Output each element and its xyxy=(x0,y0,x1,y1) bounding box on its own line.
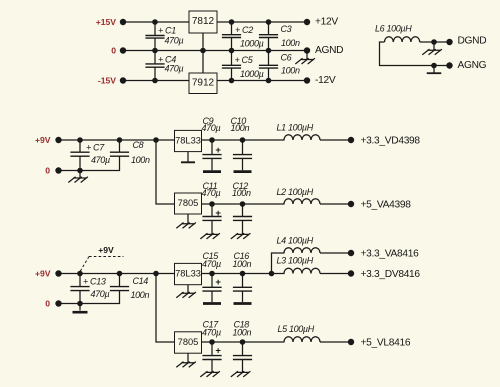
svg-text:C3: C3 xyxy=(281,24,292,34)
svg-text:+ C7: + C7 xyxy=(86,142,105,152)
svg-text:+9V: +9V xyxy=(35,135,51,145)
svg-text:+: + xyxy=(215,145,221,156)
svg-text:+: + xyxy=(215,277,221,288)
svg-text:+9V: +9V xyxy=(98,245,114,255)
svg-text:0: 0 xyxy=(111,46,116,56)
svg-text:+3.3_DV8416: +3.3_DV8416 xyxy=(361,269,421,280)
svg-text:+: + xyxy=(215,346,221,357)
svg-text:L5 100µH: L5 100µH xyxy=(278,324,315,334)
svg-text:7912: 7912 xyxy=(192,77,215,88)
svg-text:1000µ: 1000µ xyxy=(240,69,264,79)
svg-text:470µ: 470µ xyxy=(165,63,184,73)
svg-text:7812: 7812 xyxy=(192,16,215,27)
svg-text:L4 100µH: L4 100µH xyxy=(277,235,314,245)
svg-text:100n: 100n xyxy=(233,259,252,269)
svg-text:7805: 7805 xyxy=(178,337,199,347)
svg-text:+12V: +12V xyxy=(315,17,338,28)
svg-text:L2 100µH: L2 100µH xyxy=(277,187,314,197)
svg-text:+ C13: + C13 xyxy=(83,277,106,287)
svg-text:+3.3_VA8416: +3.3_VA8416 xyxy=(361,249,420,260)
svg-text:L1 100µH: L1 100µH xyxy=(277,122,314,132)
svg-text:470µ: 470µ xyxy=(91,155,110,165)
svg-text:+: + xyxy=(215,208,221,219)
svg-text:7805: 7805 xyxy=(178,198,199,208)
svg-text:470µ: 470µ xyxy=(202,188,221,198)
svg-text:1000µ: 1000µ xyxy=(240,39,264,49)
svg-text:+ C2: + C2 xyxy=(235,25,253,35)
svg-text:AGND: AGND xyxy=(315,45,343,56)
svg-text:+5_VA4398: +5_VA4398 xyxy=(361,200,412,211)
svg-text:AGNG: AGNG xyxy=(458,60,487,71)
svg-text:470µ: 470µ xyxy=(202,123,221,133)
svg-text:0: 0 xyxy=(45,299,50,309)
svg-text:-15V: -15V xyxy=(98,76,116,86)
svg-text:+5_VL8416: +5_VL8416 xyxy=(361,338,411,349)
svg-text:+15V: +15V xyxy=(96,17,117,27)
svg-text:100n: 100n xyxy=(281,38,300,48)
svg-text:+9V: +9V xyxy=(35,269,51,279)
svg-text:+ C1: + C1 xyxy=(158,26,176,36)
svg-text:L3 100µH: L3 100µH xyxy=(277,256,314,266)
svg-text:470µ: 470µ xyxy=(165,35,184,45)
svg-text:C6: C6 xyxy=(281,53,292,63)
svg-text:C8: C8 xyxy=(133,140,144,150)
svg-text:100n: 100n xyxy=(232,188,251,198)
svg-text:100n: 100n xyxy=(233,327,252,337)
svg-text:C14: C14 xyxy=(133,276,149,286)
svg-text:L6 100µH: L6 100µH xyxy=(375,24,412,34)
svg-text:78L33: 78L33 xyxy=(175,269,201,279)
svg-text:470µ: 470µ xyxy=(202,259,221,269)
svg-text:+3.3_VD4398: +3.3_VD4398 xyxy=(361,136,421,147)
svg-text:+ C5: + C5 xyxy=(235,55,254,65)
svg-text:470µ: 470µ xyxy=(202,327,221,337)
svg-text:100n: 100n xyxy=(131,155,150,165)
svg-text:470µ: 470µ xyxy=(91,289,110,299)
svg-text:100n: 100n xyxy=(131,290,150,300)
svg-text:0: 0 xyxy=(45,166,50,176)
svg-text:-12V: -12V xyxy=(315,75,336,86)
svg-text:100n: 100n xyxy=(281,66,300,76)
svg-text:78L33: 78L33 xyxy=(175,136,201,146)
svg-text:100n: 100n xyxy=(231,123,250,133)
svg-text:DGND: DGND xyxy=(458,36,487,47)
